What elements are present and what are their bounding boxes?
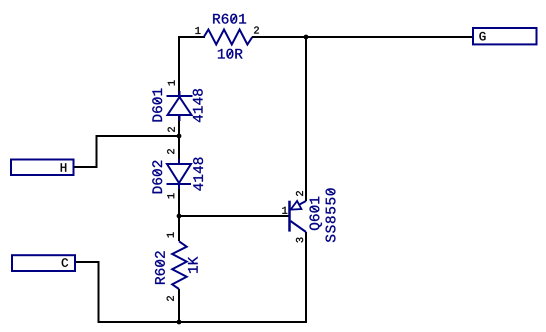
resistor R602 value 1K: [188, 257, 198, 273]
resistor R601 ref label: [213, 14, 246, 24]
D601 pin 1 number: [168, 80, 175, 85]
diode D601 value 4148: [193, 89, 203, 122]
wire D601 pin2 down to H node: [178, 115, 180, 137]
R602 pin 2 number: [167, 296, 174, 301]
junction base node: [177, 214, 182, 219]
wire junction to port G: [306, 36, 473, 38]
junction bottom rail: [177, 320, 182, 325]
port G box: [473, 28, 537, 44]
wire R602 pin2 down to bottom rail: [178, 289, 180, 323]
D601 pin 2 number: [168, 127, 175, 132]
R601 pin 2 number: [254, 26, 259, 33]
D602 pin 1 number: [167, 193, 174, 198]
transistor Q601 body (PNP): [290, 201, 307, 232]
R601 pin 1 number: [195, 27, 200, 34]
wire bottom rail: [98, 321, 308, 323]
wire base node down to R602 pin1: [178, 216, 180, 241]
wire left vertical to D601: [178, 36, 180, 96]
wire H net to node between diodes: [96, 135, 180, 137]
diode D602 value 4148: [193, 158, 203, 191]
port G label: [479, 32, 485, 40]
junction top right: [304, 35, 309, 40]
Q601 pin 3 number: [296, 238, 303, 243]
resistor R602 body: [172, 241, 187, 289]
Q601 pin 2 number: [296, 191, 303, 196]
wire port C stub: [76, 261, 99, 263]
diode D602 body (cathode bar down): [167, 159, 192, 189]
wire port C drop: [98, 261, 100, 323]
Q601 pin 1 number: [282, 207, 287, 214]
wire node down to D602 pin2: [178, 136, 180, 164]
wire junction down to Q601 pin2: [305, 36, 307, 201]
resistor R601 body: [204, 30, 253, 45]
port C box: [12, 255, 75, 271]
diode D602 ref label: [152, 161, 162, 194]
diode D601 body (cathode bar up): [167, 91, 193, 121]
R602 pin 1 number: [167, 232, 174, 237]
wire port H riser: [96, 135, 98, 168]
resistor R601 value 10R: [218, 49, 243, 59]
port C label: [62, 258, 68, 266]
junction between diodes: [177, 134, 182, 139]
diode D601 ref label: [152, 88, 162, 121]
resistor R602 ref label: [155, 251, 165, 284]
wire R601 pin1 lead: [178, 36, 205, 38]
transistor Q601 ref label: [310, 197, 322, 230]
wire bottom rail up to Q601 pin3: [305, 232, 307, 323]
wire port H stub: [74, 166, 97, 168]
port H label: [61, 163, 67, 171]
wire D602 pin1 down to base node: [178, 184, 180, 217]
D602 pin 2 number: [167, 149, 174, 154]
wire R601 pin2 to junction: [252, 36, 306, 38]
port H box: [11, 160, 74, 176]
wire base node to Q601 pin1: [179, 215, 289, 217]
transistor Q601 value SS8550: [326, 188, 336, 242]
